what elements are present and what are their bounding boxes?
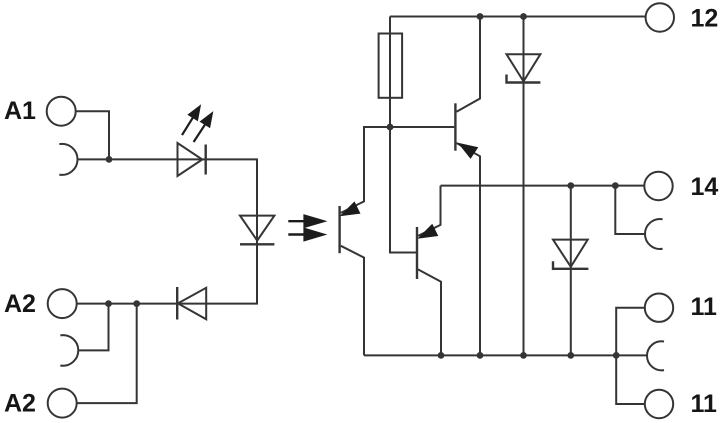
svg-text:12: 12 [691, 5, 719, 33]
svg-text:11: 11 [691, 293, 718, 321]
svg-text:A1: A1 [4, 97, 36, 125]
svg-text:14: 14 [691, 173, 719, 201]
svg-text:11: 11 [691, 390, 718, 418]
svg-text:A2: A2 [4, 390, 36, 418]
svg-text:A2: A2 [4, 290, 36, 318]
